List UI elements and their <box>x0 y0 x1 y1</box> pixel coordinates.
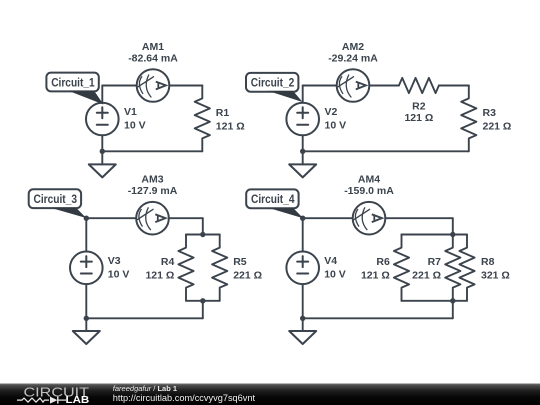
svg-text:V2: V2 <box>325 106 338 118</box>
svg-text:121 Ω: 121 Ω <box>216 121 245 133</box>
svg-text:10 V: 10 V <box>108 269 130 281</box>
svg-text:Circuit_4: Circuit_4 <box>251 192 295 206</box>
svg-text:121 Ω: 121 Ω <box>145 269 174 281</box>
svg-text:R4: R4 <box>161 256 175 268</box>
svg-text:R3: R3 <box>483 107 497 119</box>
svg-text:R6: R6 <box>376 256 390 268</box>
svg-text:321 Ω: 321 Ω <box>481 269 510 281</box>
svg-text:fareedgafur / Lab 1: fareedgafur / Lab 1 <box>113 384 177 393</box>
svg-text:Circuit_2: Circuit_2 <box>251 76 295 90</box>
svg-text:R5: R5 <box>233 256 247 268</box>
svg-text:R7: R7 <box>428 256 442 268</box>
svg-text:Circuit_1: Circuit_1 <box>51 75 95 89</box>
svg-text:221 Ω: 221 Ω <box>233 269 262 281</box>
svg-text:121 Ω: 121 Ω <box>361 269 390 281</box>
svg-text:AM1: AM1 <box>142 41 164 53</box>
svg-text:Circuit_3: Circuit_3 <box>34 192 78 206</box>
svg-text:10 V: 10 V <box>124 120 146 132</box>
svg-text:-82.64 mA: -82.64 mA <box>128 53 178 65</box>
svg-text:221 Ω: 221 Ω <box>412 269 441 281</box>
svg-text:R2: R2 <box>412 101 426 113</box>
svg-text:-127.9 mA: -127.9 mA <box>128 185 178 197</box>
svg-text:R8: R8 <box>481 256 495 268</box>
svg-text:-29.24 mA: -29.24 mA <box>328 53 378 65</box>
svg-text:LAB: LAB <box>66 394 90 405</box>
svg-text:-159.0 mA: -159.0 mA <box>344 185 394 197</box>
svg-text:AM4: AM4 <box>358 174 380 186</box>
svg-text:AM2: AM2 <box>342 41 364 53</box>
svg-text:10 V: 10 V <box>325 120 347 132</box>
svg-text:221 Ω: 221 Ω <box>483 121 512 133</box>
svg-text:V4: V4 <box>324 255 337 267</box>
svg-text:http://circuitlab.com/ccvyvg7s: http://circuitlab.com/ccvyvg7sq6vnt <box>113 393 256 403</box>
svg-text:V1: V1 <box>124 106 137 118</box>
svg-text:AM3: AM3 <box>141 174 163 186</box>
svg-text:10 V: 10 V <box>324 269 346 281</box>
svg-text:R1: R1 <box>216 107 230 119</box>
svg-text:V3: V3 <box>108 255 121 267</box>
svg-text:121 Ω: 121 Ω <box>404 112 433 124</box>
